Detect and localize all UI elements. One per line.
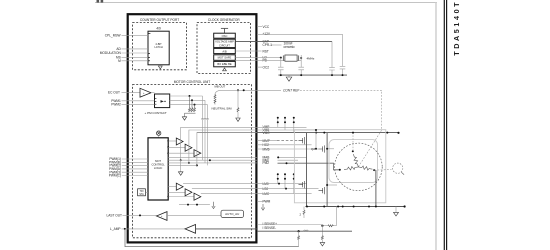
svg-text:LAST OUT: LAST OUT bbox=[106, 214, 122, 218]
svg-text:A/B: A/B bbox=[222, 49, 227, 53]
svg-text:MOT SAFE: MOT SAFE bbox=[218, 56, 232, 60]
svg-text:EC OUT: EC OUT bbox=[108, 91, 120, 95]
svg-text:M: M bbox=[118, 59, 121, 63]
svg-text:COUNTER OUTPUT PORT: COUNTER OUTPUT PORT bbox=[140, 18, 179, 22]
svg-text:LOGIC: LOGIC bbox=[154, 166, 162, 170]
svg-text:PM2: PM2 bbox=[263, 161, 270, 165]
svg-text:VCC: VCC bbox=[263, 25, 270, 29]
svg-text:Q2: Q2 bbox=[311, 147, 315, 151]
svg-text:MOT: MOT bbox=[155, 159, 161, 163]
svg-text:ceramic: ceramic bbox=[284, 45, 296, 49]
svg-text:+ PM CONTACT: + PM CONTACT bbox=[145, 111, 167, 115]
svg-text:TRI: TRI bbox=[140, 191, 144, 193]
svg-text:VOLTAGE AMP: VOLTAGE AMP bbox=[215, 40, 234, 44]
svg-text:BO EBE BE: BO EBE BE bbox=[217, 62, 232, 66]
svg-text:MODULATION: MODULATION bbox=[100, 51, 122, 55]
svg-text:NEUTRAL SIM: NEUTRAL SIM bbox=[212, 106, 233, 110]
svg-text:MB OUT: MB OUT bbox=[215, 85, 226, 89]
svg-text:4/9: 4/9 bbox=[156, 26, 161, 30]
svg-text:4MHz: 4MHz bbox=[307, 56, 315, 60]
svg-text:OSC: OSC bbox=[222, 34, 228, 38]
svg-text:PWM2: PWM2 bbox=[111, 103, 121, 107]
svg-text:PWM(C): PWM(C) bbox=[109, 174, 121, 178]
svg-text:MOTOR CONTROL UNIT: MOTOR CONTROL UNIT bbox=[174, 80, 211, 84]
svg-text:L_AMP: L_AMP bbox=[110, 227, 120, 231]
svg-text:CLOCK GENERATOR: CLOCK GENERATOR bbox=[208, 18, 240, 22]
svg-text:STA: STA bbox=[139, 193, 144, 196]
svg-text:OC2: OC2 bbox=[263, 65, 270, 69]
svg-text:CIRCUIT: CIRCUIT bbox=[219, 43, 230, 47]
svg-text:CONT REF: CONT REF bbox=[283, 89, 300, 93]
svg-text:I SENSE-: I SENSE- bbox=[263, 226, 277, 230]
svg-text:LATCH: LATCH bbox=[154, 45, 162, 49]
svg-text:CONTROL: CONTROL bbox=[152, 162, 166, 166]
svg-text:TDA5140T: TDA5140T bbox=[452, 0, 461, 56]
svg-text:CPL_MSW: CPL_MSW bbox=[105, 33, 121, 37]
svg-text:AUTO_AU: AUTO_AU bbox=[225, 212, 239, 216]
svg-text:RST: RST bbox=[263, 49, 269, 53]
